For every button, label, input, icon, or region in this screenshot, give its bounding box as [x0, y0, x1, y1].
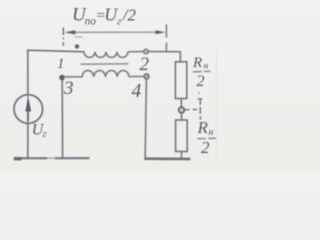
svg-text:2: 2 — [140, 54, 150, 75]
svg-text:н: н — [204, 62, 209, 72]
wire: node 4 down to rail — [145, 79, 146, 158]
svg-text:по: по — [85, 16, 97, 28]
svg-text:4: 4 — [132, 81, 142, 102]
wire: R1 to midpoint node — [180, 99, 182, 108]
bottom left rail — [15, 157, 47, 159]
resistor R1 — [175, 62, 186, 99]
svg-text:/2: /2 — [122, 6, 137, 25]
transformer core — [81, 63, 129, 65]
node dot 2 — [144, 49, 149, 54]
tap dashed line — [185, 108, 200, 110]
rail end blob — [14, 157, 22, 161]
wire: top-left vertical down to source — [27, 50, 29, 95]
wire: node 3 down to bottom rail — [61, 80, 63, 158]
wire: generator to bottom rail — [27, 123, 29, 158]
svg-text:г: г — [117, 16, 122, 28]
dimension arrow — [64, 30, 165, 34]
extension bar left — [62, 28, 64, 46]
polarity dot — [75, 44, 79, 48]
tap terminal tick — [198, 98, 203, 100]
wire: W2 to node 4 — [129, 75, 144, 77]
label R1 value Rн/2 — [192, 55, 209, 90]
ink speck under left arrowhead — [75, 36, 83, 38]
svg-text:2: 2 — [201, 138, 210, 157]
generator arrow — [25, 96, 31, 121]
fraction bar R2 — [197, 137, 216, 140]
formula label Uno = Ug/2 — [72, 5, 137, 28]
wire: R2 to bottom right rail — [180, 152, 182, 159]
wire: W1 to node 2 — [128, 51, 144, 53]
svg-text:г: г — [43, 129, 47, 140]
svg-text:R: R — [197, 118, 209, 137]
wire through generator — [27, 95, 29, 124]
wire: node 2 to resistor R1 — [149, 52, 181, 63]
ink speck below upper 2 — [198, 92, 200, 94]
wire: midpoint to R2 — [181, 113, 183, 120]
bottom right rail — [144, 157, 190, 160]
node dot 4 — [144, 74, 149, 79]
page edge artifact — [216, 48, 218, 162]
fraction bar R1 — [193, 70, 211, 73]
label R2 value Rн/2 — [197, 118, 214, 157]
tap terminal bar — [199, 99, 201, 120]
svg-text:н: н — [209, 127, 214, 138]
label Ug — [32, 122, 47, 140]
midpoint node ring — [179, 107, 185, 113]
svg-text:R: R — [192, 55, 202, 71]
svg-text:3: 3 — [63, 78, 74, 99]
extension bar right — [165, 25, 167, 52]
winding W1 top (terminals 1-2) — [84, 52, 128, 58]
wire: top-left horizontal to winding 1 — [27, 50, 84, 52]
node dot 3 — [60, 75, 65, 80]
winding W2 bottom (terminals 3-4) — [65, 70, 129, 76]
resistor R2 — [176, 120, 188, 152]
svg-text:2: 2 — [197, 73, 205, 90]
generator circle — [14, 95, 43, 124]
svg-text:1: 1 — [57, 56, 65, 72]
